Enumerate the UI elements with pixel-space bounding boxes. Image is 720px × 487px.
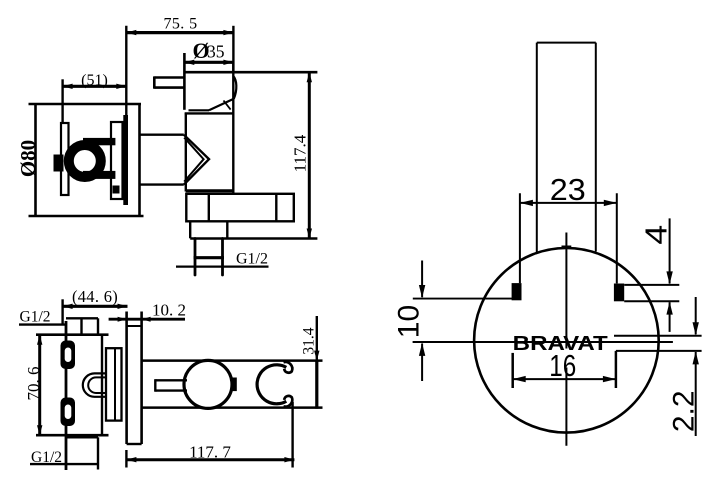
svg-text:G1/2: G1/2 — [20, 309, 51, 326]
svg-text:10: 10 — [393, 305, 426, 338]
svg-text:70. 6: 70. 6 — [24, 367, 43, 401]
svg-text:(44. 6): (44. 6) — [72, 287, 118, 306]
svg-text:35: 35 — [207, 42, 225, 62]
svg-text:4: 4 — [639, 225, 674, 245]
svg-text:Ø80: Ø80 — [16, 140, 40, 177]
svg-text:117.4: 117.4 — [291, 134, 310, 172]
svg-text:75. 5: 75. 5 — [164, 16, 198, 33]
svg-text:G1/2: G1/2 — [31, 449, 62, 466]
svg-text:(51): (51) — [81, 72, 108, 89]
svg-text:2.2: 2.2 — [668, 390, 701, 432]
svg-text:117. 7: 117. 7 — [189, 443, 231, 462]
svg-text:23: 23 — [550, 172, 586, 207]
svg-text:10. 2: 10. 2 — [152, 300, 186, 319]
svg-text:BRAVAT: BRAVAT — [513, 333, 608, 355]
svg-text:G1/2: G1/2 — [236, 251, 268, 268]
svg-text:31.4: 31.4 — [301, 327, 318, 354]
